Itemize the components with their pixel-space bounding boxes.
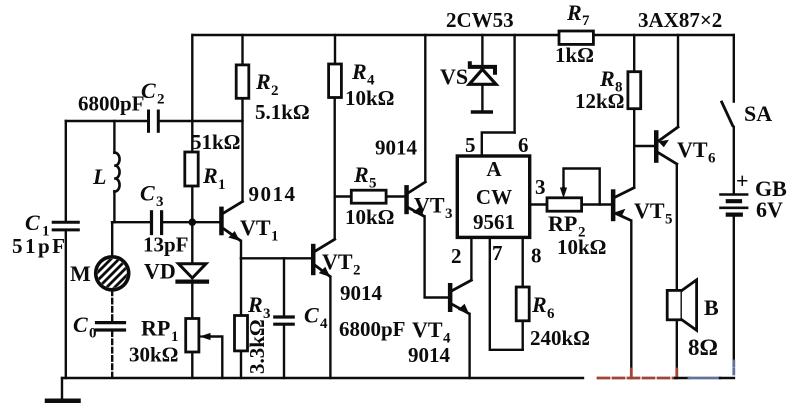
svg-text:R: R: [255, 69, 271, 94]
svg-text:VS: VS: [440, 64, 468, 89]
resistor R4: [329, 64, 342, 98]
label 6800pF near VT4: [339, 317, 406, 341]
wire RP1 bottom to ground bus: [191, 352, 193, 378]
label R4: [351, 59, 375, 89]
wire VT4 emitter to ground bus: [468, 314, 470, 378]
svg-text:M: M: [70, 261, 91, 286]
battery GB: [721, 195, 748, 215]
svg-text:10kΩ: 10kΩ: [557, 235, 607, 259]
wire bottom ground bus red dashed section: [598, 377, 675, 380]
svg-text:8: 8: [531, 244, 542, 268]
resistor R8: [628, 72, 641, 109]
wire bottom ground bus black mid-right section: [675, 377, 689, 379]
label 3AX87x2: [638, 8, 722, 32]
svg-text:6: 6: [518, 133, 529, 157]
svg-text:5.1kΩ: 5.1kΩ: [255, 100, 310, 124]
label C0: [73, 312, 97, 342]
wire C1 bottom to ground bus: [65, 231, 67, 378]
wire R1 bottom to node A: [191, 186, 193, 220]
wire VT1 emitter down to y258 line: [240, 241, 242, 258]
capacitor C3: [152, 212, 162, 234]
svg-text:51pF: 51pF: [12, 234, 68, 258]
svg-text:C: C: [304, 303, 319, 328]
label 8Ω for B: [688, 335, 718, 360]
wire C3 to node A to VT1 base: [163, 221, 219, 223]
wire R4 bottom to VT2 collector: [334, 98, 336, 240]
label 9014 for VT4: [408, 343, 451, 367]
svg-text:VT: VT: [412, 317, 443, 342]
label R7: [566, 0, 590, 29]
wire R8 bottom through VT6 base node to VT5 collector: [633, 109, 635, 188]
wire VS zener top lead from bus: [481, 35, 483, 65]
svg-text:5: 5: [665, 212, 673, 228]
label R8: [599, 66, 623, 96]
svg-text:A: A: [486, 157, 502, 181]
svg-text:240kΩ: 240kΩ: [530, 326, 590, 350]
op-amp U1 IC CW9561 box: [457, 156, 529, 237]
wire L bottom lead: [113, 192, 115, 223]
svg-text:C: C: [25, 210, 40, 235]
wire dashed M to C0: [111, 291, 113, 322]
svg-text:+: +: [736, 168, 749, 193]
resistor R6: [516, 287, 529, 321]
label 10kΩ for R4: [345, 86, 395, 110]
label R5: [353, 162, 377, 192]
wire VT3 emitter down and right to VT4 base: [425, 217, 448, 298]
wire R2 top lead: [241, 35, 243, 65]
label R2: [255, 69, 279, 99]
label L: [92, 164, 106, 189]
svg-text:3: 3: [445, 206, 453, 222]
svg-text:VT: VT: [677, 137, 708, 162]
svg-text:9014: 9014: [408, 343, 451, 367]
wire R4 top lead: [334, 35, 336, 64]
wire SA bottom lead to battery: [733, 127, 735, 194]
wire VT2 collector tap to R5: [335, 195, 352, 197]
svg-text:C: C: [73, 312, 88, 337]
wire speaker red tail: [675, 369, 678, 378]
wire microphone M top lead: [111, 222, 113, 257]
diode VD: [178, 264, 208, 282]
label 5.1kΩ for R2: [255, 100, 310, 124]
svg-text:3.3kΩ: 3.3kΩ: [245, 319, 269, 374]
capacitor C1: [53, 222, 78, 230]
wire VT5 emitter red tail: [630, 369, 633, 378]
svg-text:9014: 9014: [340, 281, 383, 305]
label pin 7: [492, 241, 503, 265]
label C4: [304, 303, 328, 333]
wire battery bottom to ground bus: [733, 216, 735, 362]
label RP2: [548, 211, 586, 241]
svg-text:2CW53: 2CW53: [446, 8, 514, 32]
label C3: [140, 181, 164, 211]
wire VT6 emitter up to top bus: [677, 35, 679, 127]
resistor R2: [236, 65, 249, 98]
label SA: [744, 101, 772, 126]
svg-text:R: R: [351, 59, 367, 84]
wire R3 bottom lead: [240, 351, 242, 378]
label VS: [440, 64, 468, 89]
svg-text:9014: 9014: [249, 182, 297, 206]
wire R6 bottom lead: [522, 321, 524, 350]
wire VT5 emitter to ground bus: [630, 221, 632, 369]
wire bottom ground bus blue-gray section: [689, 377, 720, 380]
wire RP1 wiper to ground bus: [210, 337, 222, 379]
svg-text:10kΩ: 10kΩ: [345, 86, 395, 110]
wire IC pin 3 to RP2: [530, 203, 547, 205]
wire bottom ground bus right end section: [720, 377, 734, 379]
wire SA top lead from bus corner: [733, 35, 735, 102]
svg-text:R: R: [202, 163, 218, 188]
svg-text:VT: VT: [414, 193, 445, 218]
label 6V: [756, 197, 783, 222]
svg-text:3: 3: [535, 175, 546, 199]
wire VT6 collector down to speaker: [676, 165, 678, 291]
svg-text:VT: VT: [634, 198, 665, 223]
label 51kΩ for R1: [191, 130, 241, 154]
wire C2 right segment to R2/VT1 collector line: [160, 120, 243, 122]
svg-text:2: 2: [353, 263, 361, 279]
transistor VT1: [219, 202, 242, 242]
switch SA: [722, 102, 733, 126]
transistor VT4: [448, 280, 472, 314]
svg-text:2: 2: [157, 92, 165, 108]
svg-text:R: R: [247, 292, 263, 317]
label pin 2: [451, 244, 462, 268]
label 3.3kΩ for R3 rotated: [245, 319, 269, 374]
label 1kΩ for R7: [555, 43, 594, 67]
wire dashed C0 to ground bus: [111, 331, 113, 377]
svg-text:SA: SA: [744, 101, 772, 126]
wire battery blue tail: [732, 361, 735, 377]
svg-text:R: R: [531, 292, 547, 317]
label RP1: [141, 316, 179, 346]
wire top supply bus left section: [193, 34, 559, 36]
svg-text:30kΩ: 30kΩ: [129, 343, 179, 367]
wire IC pin 5 jumper to pin 6: [482, 133, 515, 157]
wire L top lead: [113, 121, 115, 153]
capacitor C0: [97, 323, 125, 330]
label pin 8: [531, 244, 542, 268]
label pin 6: [518, 133, 529, 157]
wire IC pin 6 up to top bus: [513, 35, 515, 133]
svg-text:B: B: [704, 295, 719, 320]
wire base line y221 left segment to C3: [112, 221, 150, 223]
wire R8 top lead from bus: [633, 35, 635, 72]
label IC text A CW 9561: [473, 157, 515, 234]
svg-text:9561: 9561: [473, 210, 515, 234]
svg-text:6800pF: 6800pF: [78, 92, 145, 116]
potentiometer RP1: [186, 319, 211, 353]
transistor VT5: [611, 188, 634, 222]
wire C4 top lead: [283, 258, 285, 316]
svg-text:R: R: [353, 162, 369, 187]
wire R5 to VT3 base: [386, 195, 404, 197]
label 9014 for VT2: [340, 281, 383, 305]
label VT4: [412, 317, 451, 347]
label 51pF for C1: [12, 234, 68, 258]
wire left rail from top bus corner down to R1: [191, 35, 193, 152]
label pin 5: [465, 133, 476, 157]
label 12kΩ for R8: [575, 89, 625, 113]
label 2CW53 for VS: [446, 8, 514, 32]
label 13pF for C3: [143, 233, 189, 257]
label 6800pF for C2: [78, 92, 145, 116]
label 30kΩ for RP1: [129, 343, 179, 367]
svg-text:6: 6: [708, 151, 716, 167]
microphone M: [92, 253, 136, 296]
label B: [704, 295, 719, 320]
wire C2 input line left segment: [66, 120, 147, 122]
svg-text:C: C: [141, 78, 156, 103]
svg-text:10kΩ: 10kΩ: [345, 205, 395, 229]
label GB: [755, 176, 787, 201]
label M: [70, 261, 91, 286]
wire speaker bottom lead: [676, 320, 678, 369]
wire node A down to VD: [191, 222, 193, 262]
svg-text:6: 6: [547, 306, 555, 322]
label VT1: [240, 215, 279, 245]
label R3: [247, 292, 271, 322]
svg-text:1: 1: [218, 177, 226, 193]
capacitor C2: [149, 111, 159, 131]
svg-text:VD: VD: [144, 259, 176, 284]
label 240kΩ for R6: [530, 326, 590, 350]
wire VT2 emitter to ground bus: [329, 277, 331, 378]
label 9014 for VT1: [249, 182, 297, 206]
wire VD to RP1: [191, 284, 193, 319]
svg-text:51kΩ: 51kΩ: [191, 130, 241, 154]
svg-text:7: 7: [492, 241, 503, 265]
wire IC pin 8 down to R6 top: [522, 237, 524, 287]
zener diode VS: [469, 63, 496, 112]
svg-text:RP: RP: [548, 211, 577, 236]
wire left branch down to C1: [65, 121, 67, 222]
label VD: [144, 259, 176, 284]
svg-text:2: 2: [451, 244, 462, 268]
capacitor C4: [275, 317, 293, 324]
svg-text:1: 1: [271, 229, 279, 245]
wire VS zener bottom lead to end bar: [481, 86, 483, 111]
wire RP2 to VT5 base: [582, 203, 611, 205]
label C1: [25, 210, 50, 240]
svg-text:C: C: [140, 181, 155, 206]
potentiometer RP2: [547, 188, 582, 212]
inductor L: [114, 153, 119, 192]
label 10kΩ for R5: [345, 205, 395, 229]
wire RP2 wiper link to right terminal: [564, 169, 600, 205]
svg-text:4: 4: [320, 316, 328, 332]
wire bottom ground bus black section: [62, 377, 583, 379]
transistor VT2: [311, 239, 335, 277]
label C2: [141, 78, 165, 108]
svg-text:L: L: [92, 164, 106, 189]
node A junction dot: [189, 218, 197, 226]
wire C4 bottom lead: [283, 325, 285, 379]
svg-text:9014: 9014: [375, 136, 418, 160]
wire top supply bus right section: [593, 34, 734, 36]
wire R3 top lead: [240, 258, 242, 315]
label VT6: [677, 137, 716, 167]
label R6: [531, 292, 555, 322]
label VT3: [414, 193, 453, 223]
svg-text:0: 0: [89, 326, 97, 342]
svg-text:2: 2: [271, 83, 279, 99]
svg-text:R: R: [599, 66, 615, 91]
wire VT3 collector up to top bus: [424, 35, 426, 181]
speaker B: [667, 280, 696, 330]
label pin 3: [535, 175, 546, 199]
label + of battery: [736, 168, 749, 193]
svg-text:12kΩ: 12kΩ: [575, 89, 625, 113]
wire VT4 collector up to IC pin 2: [470, 237, 472, 279]
svg-text:RP: RP: [141, 316, 170, 341]
svg-text:CW: CW: [476, 185, 512, 209]
svg-text:VT: VT: [322, 249, 353, 274]
resistor R3: [235, 316, 248, 351]
svg-text:R: R: [566, 0, 582, 25]
label VT2: [322, 249, 361, 279]
svg-text:13pF: 13pF: [143, 233, 189, 257]
svg-text:3AX87×2: 3AX87×2: [638, 8, 722, 32]
wire VT6 base line: [634, 145, 654, 147]
wire IC pin 7 down and right to R6 bottom: [490, 237, 523, 349]
svg-text:6V: 6V: [756, 197, 783, 222]
svg-text:6800pF: 6800pF: [339, 317, 406, 341]
label VT5: [634, 198, 673, 228]
svg-text:VT: VT: [240, 215, 271, 240]
ground: [47, 378, 79, 401]
wire emitter line y258 to VT2 base: [241, 257, 311, 259]
svg-text:1kΩ: 1kΩ: [555, 43, 594, 67]
svg-text:3: 3: [156, 194, 164, 210]
resistor R1: [185, 152, 198, 186]
svg-text:8Ω: 8Ω: [688, 335, 718, 360]
transistor VT6: [654, 127, 678, 164]
svg-text:7: 7: [582, 13, 590, 29]
svg-text:5: 5: [369, 176, 377, 192]
label 10kΩ for RP2: [557, 235, 607, 259]
svg-text:5: 5: [465, 133, 476, 157]
label R1: [202, 163, 226, 193]
resistor R5: [351, 190, 386, 203]
transistor VT3: [404, 182, 425, 217]
wire R2 bottom to VT1 collector: [241, 98, 243, 201]
label 9014 for VT3: [375, 136, 418, 160]
resistor R7: [559, 31, 593, 44]
